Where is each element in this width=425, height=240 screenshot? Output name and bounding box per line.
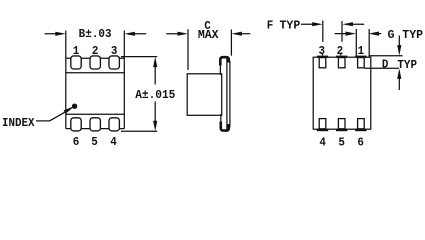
svg-text:5: 5	[338, 135, 345, 150]
side view lead top hook	[220, 57, 229, 65]
svg-text:2: 2	[92, 43, 99, 58]
right view pin 1 body	[358, 58, 365, 68]
right view package body outline	[313, 57, 371, 129]
left view pin 6 pad	[71, 118, 81, 131]
right view pin 4 body	[319, 119, 326, 129]
right view pin 2 body	[338, 58, 345, 68]
right view pin 3 cap	[317, 56, 328, 58]
left view pin 3 pad	[109, 56, 119, 69]
side view lead inner edge	[219, 63, 221, 76]
right view pin 5 body	[338, 119, 345, 129]
svg-text:4: 4	[319, 135, 326, 150]
side view lead bottom hook	[221, 122, 229, 131]
dimension A±.015	[121, 57, 157, 132]
right view pin 2 cap	[336, 56, 347, 58]
left view pin 2 pad	[90, 56, 100, 69]
svg-text:TYP: TYP	[402, 28, 423, 42]
dimension F TYP (lead pitch)	[301, 21, 364, 56]
svg-text:6: 6	[357, 135, 364, 150]
svg-text:1: 1	[358, 43, 365, 58]
svg-text:5: 5	[91, 134, 98, 149]
left view pin 5 pad	[90, 118, 100, 131]
right view pin 3 body	[319, 58, 326, 68]
right view pin 6 body	[358, 119, 365, 129]
svg-text:A±.015: A±.015	[135, 87, 175, 102]
left view pin 1 pad	[71, 56, 81, 69]
svg-text:4: 4	[110, 134, 117, 149]
side view body	[187, 74, 222, 116]
svg-text:6: 6	[73, 134, 80, 149]
right view pin 4 cap	[317, 129, 328, 131]
svg-text:2: 2	[337, 43, 344, 58]
side view lead outer edge	[229, 61, 231, 127]
svg-text:F: F	[267, 18, 274, 33]
dimension D TYP (lead depth)	[365, 36, 403, 91]
index leader arrow	[36, 104, 77, 121]
svg-text:TYP: TYP	[397, 57, 417, 72]
right view pin 6 cap	[355, 129, 366, 131]
svg-text:3: 3	[111, 43, 118, 58]
dimension C MAX	[166, 29, 250, 70]
right view pin 1 cap	[355, 56, 366, 58]
svg-text:D: D	[382, 57, 389, 72]
dimension B±.03	[45, 32, 147, 36]
svg-text:B±.03: B±.03	[79, 26, 112, 41]
side view lead mid line	[226, 58, 228, 129]
svg-text:TYP: TYP	[280, 18, 301, 32]
right view pin 5 cap	[336, 129, 347, 131]
svg-text:1: 1	[73, 43, 80, 58]
dimension G TYP (lead to edge)	[335, 29, 382, 57]
svg-text:INDEX: INDEX	[2, 116, 35, 130]
svg-text:MAX: MAX	[198, 28, 220, 42]
svg-text:G: G	[388, 28, 395, 42]
left view package body outline	[66, 31, 125, 129]
left view pin 4 pad	[109, 118, 119, 131]
svg-text:3: 3	[319, 43, 326, 58]
